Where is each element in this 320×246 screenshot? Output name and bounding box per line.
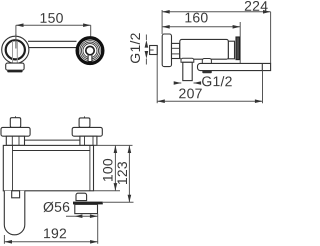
aerator nub below arm (202, 71, 212, 74)
right hex flat line 1 (84, 136, 86, 145)
handle outer thick ring (77, 38, 103, 64)
svg-text:160: 160 (184, 9, 208, 25)
handle lever slot (88, 51, 92, 62)
handle thin circle 2 (81, 42, 98, 59)
extension line 224 right (to spout tip) (270, 12, 272, 64)
body neck (228, 41, 234, 59)
svg-text:123: 123 (114, 161, 130, 185)
right union flange (72, 127, 102, 136)
207 extension line (stub right edge down) (156, 46, 158, 104)
spout arm divider (261, 63, 263, 70)
192 right extension (97, 214, 99, 244)
connecting bar between spout and handle (28, 40, 77, 42)
handle disc flange (tall) (162, 34, 171, 67)
G1/2 vertical dim lower line (145, 59, 147, 65)
svg-text:G1/2: G1/2 (127, 32, 143, 63)
right union hex nut (80, 136, 97, 145)
left union flange (1, 127, 30, 136)
100 top arrow (114, 145, 118, 153)
dimension 123 line (128, 145, 130, 202)
right hex flat line 2 (92, 136, 94, 145)
hex nut section (172, 43, 180, 58)
body cylinder (180, 39, 229, 59)
dimension 100 line (114, 145, 116, 190)
G1/2 outlet dim right segment (194, 82, 201, 84)
hex flat line upper (172, 47, 180, 49)
svg-text:192: 192 (43, 225, 67, 241)
right union tail square (79, 118, 90, 128)
spout tail tab (12, 191, 20, 198)
192 right arrow (90, 240, 98, 244)
left union tick (15, 116, 17, 118)
192 left arrow (4, 240, 12, 244)
outlet tube (183, 62, 192, 80)
inlet stub cap tick (150, 49, 154, 51)
extension line left (to spout center) (15, 25, 17, 48)
body inner step left (12, 145, 14, 190)
hex flat line lower (172, 53, 180, 55)
svg-text:G1/2: G1/2 (201, 73, 232, 89)
handle stem (76, 193, 87, 200)
dimension 150 left arrow (16, 23, 24, 27)
123 top arrow (128, 145, 132, 153)
dimension 150 right arrow (83, 23, 91, 27)
svg-text:150: 150 (40, 10, 64, 26)
Ø56 left arrow (75, 214, 83, 218)
outlet cap (181, 58, 194, 62)
handle thin circle 3 (83, 44, 97, 58)
body inner step right (89, 145, 91, 190)
dimension 192 line (4, 241, 97, 243)
100 bottom arrow (114, 183, 118, 191)
left union tail square (10, 118, 20, 128)
G1/2 vertical dim lower arrow (up) (145, 51, 149, 59)
handle center knob (86, 46, 94, 54)
extension line right (to handle top) (90, 25, 92, 36)
dimension 224 left arrow (162, 10, 170, 14)
123 bottom arrow (128, 195, 132, 203)
spout base escutcheon (6, 63, 24, 70)
G1/2 vertical dim upper line (145, 35, 147, 41)
svg-text:207: 207 (179, 85, 203, 101)
spout center extension overlay (15, 34, 17, 49)
dimension Ø56 line (66, 215, 98, 217)
handle thin circle 1 (80, 41, 100, 61)
extension line 160 right (to wall flange) (239, 22, 241, 63)
spout aerator dark bar (7, 70, 22, 72)
body slab (3, 145, 93, 190)
handle plate (dark) (73, 202, 103, 205)
dimension 160 right arrow (233, 25, 241, 29)
dimension 207 left arrow (157, 99, 165, 103)
wall flange (dark) (236, 37, 240, 60)
dimension 150 line (16, 24, 91, 26)
body inner step top (13, 150, 90, 152)
handle flange body (75, 204, 98, 213)
wall bar between unions (25, 139, 80, 141)
left union hex nut (6, 136, 24, 145)
G1/2 outlet dim left arrow (174, 81, 182, 85)
192 left extension (3, 235, 5, 244)
dimension 224 line (162, 11, 271, 13)
dimension 160 left arrow (162, 25, 170, 29)
dimension 100 top extension (94, 144, 133, 146)
arm collar cap (202, 59, 211, 64)
207 right extension line (262, 71, 264, 104)
G1/2 vertical dim upper arrow (down) (145, 40, 149, 48)
G1/2 outlet dim right arrow (194, 81, 202, 85)
right union tick (84, 116, 86, 118)
spout outer circle (2, 36, 29, 63)
spout capsule (U shape) (4, 191, 25, 235)
dimension 123 bottom extension (103, 201, 134, 203)
dimension 224 right arrow (263, 10, 271, 14)
dimension 160 line (162, 26, 240, 28)
left hex flat line 1 (11, 136, 13, 145)
dimension 207 line (157, 100, 262, 102)
G1/2 outlet dim left segment (176, 82, 182, 84)
Ø56 right arrow (90, 214, 98, 218)
svg-text:Ø56: Ø56 (43, 199, 70, 215)
dimension 207 right arrow (255, 99, 263, 103)
dimension 100 bottom extension (94, 190, 120, 192)
inlet stub (150, 46, 158, 55)
spout inner circle (thick) (6, 40, 25, 59)
extension line left shared by 224/160 (161, 10, 163, 34)
left hex flat line 2 (18, 136, 20, 145)
spout tube lines (gray) (12, 41, 14, 63)
spout arm (198, 63, 271, 70)
